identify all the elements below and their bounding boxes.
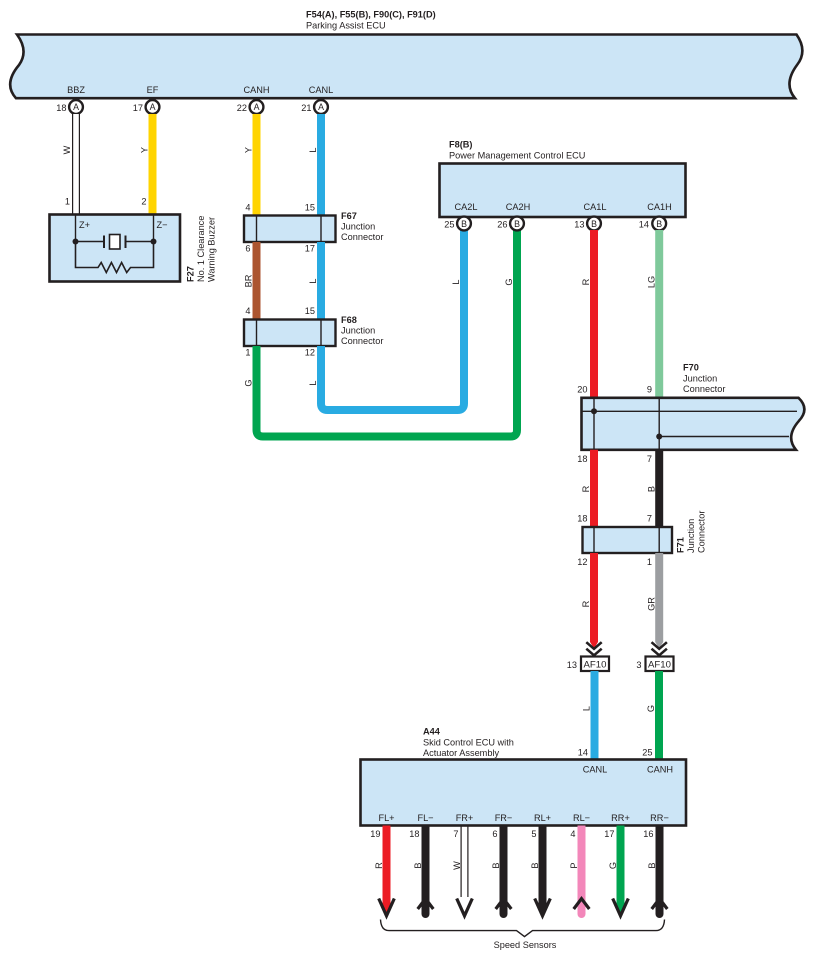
svg-text:CA2L: CA2L (455, 202, 478, 212)
svg-text:13: 13 (574, 220, 584, 230)
wire LG light-green CA1H to F70 pin 9 (647, 230, 660, 398)
svg-text:Actuator Assembly: Actuator Assembly (423, 748, 499, 758)
svg-text:F70: F70 (683, 363, 699, 373)
svg-text:Connector: Connector (683, 384, 725, 394)
svg-text:Y: Y (244, 147, 254, 153)
F70 bus bar 2 (659, 436, 789, 438)
svg-text:21: 21 (301, 103, 311, 113)
svg-text:Junction: Junction (683, 374, 717, 384)
svg-text:18: 18 (577, 514, 587, 524)
svg-text:Junction: Junction (341, 326, 375, 336)
wire G green AF10 to A44 pin 25 (642, 671, 659, 760)
svg-text:17: 17 (305, 244, 315, 254)
buzzer crystal body (110, 235, 121, 250)
svg-text:Junction: Junction (686, 519, 696, 553)
svg-text:B: B (530, 862, 540, 868)
svg-text:B: B (647, 862, 657, 868)
svg-text:4: 4 (245, 306, 250, 316)
svg-text:1: 1 (647, 557, 652, 567)
Parking Assist ECU band F54/F55/F90/F91 (10, 35, 802, 99)
buzzer crystal electrode right (125, 236, 127, 249)
svg-text:Connector: Connector (697, 511, 707, 553)
svg-text:FL+: FL+ (378, 813, 394, 823)
F27 internal lead left (75, 215, 77, 242)
resistor loop in F27 (76, 242, 154, 273)
svg-text:16: 16 (643, 829, 653, 839)
terminal B circle pin 14 (639, 217, 666, 231)
svg-text:CA1L: CA1L (584, 202, 607, 212)
svg-text:2: 2 (141, 197, 146, 207)
svg-text:18: 18 (409, 829, 419, 839)
svg-text:25: 25 (642, 748, 652, 758)
svg-text:Speed Sensors: Speed Sensors (494, 940, 557, 950)
svg-text:GR: GR (647, 597, 657, 611)
svg-text:17: 17 (604, 829, 614, 839)
wire R red F70 to F71 (581, 450, 594, 527)
svg-text:B: B (514, 219, 520, 229)
svg-text:B: B (461, 219, 467, 229)
svg-text:L: L (308, 278, 318, 283)
svg-text:R: R (581, 600, 591, 607)
svg-text:22: 22 (237, 103, 247, 113)
svg-text:12: 12 (305, 348, 315, 358)
buzzer element leads (76, 241, 105, 243)
F71 designator rotated (676, 537, 686, 553)
svg-text:9: 9 (647, 385, 652, 395)
svg-text:CA2H: CA2H (506, 202, 531, 212)
svg-text:B: B (656, 219, 662, 229)
svg-text:12: 12 (577, 557, 587, 567)
wire G green RR+ down arrow (608, 826, 628, 916)
svg-text:Y: Y (140, 147, 150, 153)
svg-text:R: R (581, 485, 591, 492)
svg-text:18: 18 (577, 454, 587, 464)
svg-text:Connector: Connector (341, 336, 383, 346)
wire B black RR- up chevron (647, 826, 667, 919)
svg-text:RR−: RR− (650, 813, 669, 823)
svg-text:CANH: CANH (243, 85, 269, 95)
svg-text:FL−: FL− (417, 813, 433, 823)
svg-text:B: B (647, 486, 657, 492)
svg-text:R: R (581, 278, 591, 285)
wire R red CA1L to F70 pin 20 (581, 230, 594, 398)
svg-text:7: 7 (647, 514, 652, 524)
svg-text:CANL: CANL (583, 765, 608, 775)
svg-text:20: 20 (577, 385, 587, 395)
svg-text:L: L (308, 380, 318, 385)
svg-text:7: 7 (647, 454, 652, 464)
wire BR brown F67 to F68 (244, 242, 257, 320)
svg-text:RL−: RL− (573, 813, 590, 823)
svg-text:FR+: FR+ (456, 813, 474, 823)
wire B black FR- up chevron (491, 826, 511, 919)
wire L blue F67 to F68 (308, 242, 321, 320)
svg-text:L: L (582, 706, 592, 711)
junction connector F70 band (582, 398, 805, 450)
F71 pass-through line right (658, 527, 660, 553)
F68 pass-through line left (256, 320, 258, 347)
svg-text:A: A (254, 102, 260, 112)
svg-text:3: 3 (636, 660, 641, 670)
F70 bus bar 1 (583, 410, 798, 412)
svg-text:F27: F27 (186, 266, 196, 282)
terminal A circle pin 21 (301, 100, 328, 114)
svg-text:FR−: FR− (495, 813, 513, 823)
wire L blue CANL to F67 pin 15 (308, 114, 321, 216)
svg-text:F71: F71 (676, 537, 686, 553)
svg-text:4: 4 (245, 203, 250, 213)
Skid Control ECU A44 box (361, 760, 687, 826)
svg-text:Connector: Connector (341, 232, 383, 242)
wire L blue AF10 to A44 pin 14 (578, 671, 595, 760)
F68 pass-through line right (320, 320, 322, 347)
svg-text:EF: EF (147, 85, 159, 95)
F70 junction dot 2 (656, 434, 662, 440)
svg-text:6: 6 (492, 829, 497, 839)
wire B black RL+ down arrow (530, 826, 550, 916)
svg-text:19: 19 (370, 829, 380, 839)
terminal A circle pin 17 (133, 100, 160, 114)
svg-text:No. 1 Clearance: No. 1 Clearance (196, 216, 206, 282)
svg-text:G: G (646, 705, 656, 712)
svg-text:6: 6 (245, 244, 250, 254)
svg-text:1: 1 (245, 348, 250, 358)
wire W white BBZ to F27 pin 1 (62, 114, 80, 215)
svg-text:Junction: Junction (341, 222, 375, 232)
double chevron into AF10 right (652, 642, 667, 657)
wire G green F68 pin1 to CA2H (244, 230, 518, 437)
junction connector F71 box (583, 527, 673, 553)
junction dot left (73, 239, 79, 245)
svg-text:A: A (73, 102, 79, 112)
svg-text:RL+: RL+ (534, 813, 551, 823)
connector code AF10 left box (567, 657, 609, 672)
svg-text:15: 15 (305, 306, 315, 316)
wire W white FR+ down arrow (452, 826, 472, 916)
F27 designator rotated (186, 266, 196, 282)
svg-text:F54(A), F55(B), F90(C), F91(D): F54(A), F55(B), F90(C), F91(D) (306, 10, 436, 20)
svg-text:AF10: AF10 (584, 660, 607, 671)
terminal B circle pin 13 (574, 217, 601, 231)
svg-text:L: L (451, 279, 461, 284)
svg-text:L: L (308, 147, 318, 152)
wire B black FL- up chevron (413, 826, 433, 919)
F71 pass-through line left (593, 527, 595, 553)
connector code AF10 right box (636, 657, 673, 672)
wire R red FL+ down arrow (374, 826, 394, 916)
svg-text:CANH: CANH (647, 765, 673, 775)
Power Management Control ECU F8(B) box (440, 164, 686, 218)
svg-text:5: 5 (531, 829, 536, 839)
svg-text:Warning Buzzer: Warning Buzzer (207, 217, 217, 282)
svg-text:W: W (62, 145, 72, 154)
F70 junction dot 1 (591, 408, 597, 414)
F67 pass-through line right (320, 216, 322, 243)
svg-text:A: A (318, 102, 324, 112)
svg-text:G: G (504, 278, 514, 285)
wire R red F71 to AF10 (581, 553, 598, 649)
wire Y yellow EF to F27 pin 2 (140, 114, 153, 215)
svg-text:7: 7 (453, 829, 458, 839)
svg-text:F8(B): F8(B) (449, 140, 472, 150)
svg-text:P: P (569, 862, 579, 868)
svg-text:BR: BR (244, 274, 254, 287)
svg-text:13: 13 (567, 660, 577, 670)
svg-text:26: 26 (497, 220, 507, 230)
svg-text:Parking Assist ECU: Parking Assist ECU (306, 21, 386, 31)
svg-text:LG: LG (647, 276, 657, 288)
svg-text:Skid Control ECU with: Skid Control ECU with (423, 738, 514, 748)
F67 pass-through line left (256, 216, 258, 243)
svg-text:1: 1 (65, 197, 70, 207)
F27 internal lead right (153, 215, 155, 242)
double chevron into AF10 left (586, 642, 601, 657)
svg-text:B: B (591, 219, 597, 229)
svg-text:CA1H: CA1H (647, 202, 672, 212)
junction connector F68 box (244, 320, 336, 347)
svg-text:17: 17 (133, 103, 143, 113)
svg-text:B: B (413, 862, 423, 868)
junction connector F67 box (244, 216, 336, 243)
terminal B circle pin 26 (497, 217, 524, 231)
svg-text:CANL: CANL (309, 85, 334, 95)
svg-text:Z−: Z− (157, 220, 168, 230)
svg-text:G: G (244, 379, 254, 386)
wire L blue F68 pin12 to CA2L (308, 230, 464, 410)
terminal A circle pin 18 (56, 100, 83, 114)
svg-text:B: B (491, 862, 501, 868)
svg-text:BBZ: BBZ (67, 85, 85, 95)
svg-text:A44: A44 (423, 727, 441, 737)
terminal A circle pin 22 (237, 100, 264, 114)
svg-text:14: 14 (578, 748, 588, 758)
junction dot right (151, 239, 157, 245)
wire B black F70 to F71 (647, 450, 660, 527)
svg-text:RR+: RR+ (611, 813, 630, 823)
svg-text:F68: F68 (341, 315, 357, 325)
buzzer F27 box (50, 215, 181, 282)
svg-text:18: 18 (56, 103, 66, 113)
wire Y yellow CANH to F67 pin 4 (244, 114, 257, 216)
terminal B circle pin 25 (444, 217, 471, 231)
wire GR gray F71 to AF10 (647, 553, 664, 649)
svg-text:A: A (150, 102, 156, 112)
svg-text:R: R (374, 862, 384, 869)
svg-text:W: W (452, 861, 462, 870)
F70 pass-through line right (658, 398, 660, 450)
svg-text:F67: F67 (341, 211, 357, 221)
svg-text:15: 15 (305, 203, 315, 213)
svg-text:G: G (608, 862, 618, 869)
svg-text:25: 25 (444, 220, 454, 230)
wire P pink RL- up chevron (569, 826, 589, 919)
svg-text:AF10: AF10 (648, 660, 671, 671)
svg-text:Z+: Z+ (79, 220, 90, 230)
speed sensors brace (381, 920, 665, 937)
buzzer crystal electrode left (103, 236, 105, 249)
svg-text:Power Management Control ECU: Power Management Control ECU (449, 151, 585, 161)
svg-text:4: 4 (570, 829, 575, 839)
svg-text:14: 14 (639, 220, 649, 230)
F70 pass-through line left (593, 398, 595, 450)
